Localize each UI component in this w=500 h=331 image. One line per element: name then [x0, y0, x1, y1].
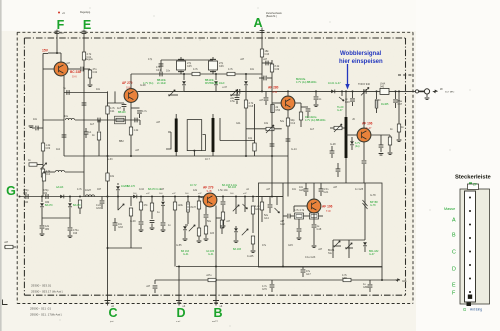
capacitor stub x237 [236, 91, 238, 96]
capacitor between stages [238, 89, 240, 94]
capacitor AF280 base lower [270, 144, 275, 146]
arrow Wobbler injection [347, 64, 349, 88]
trimmer resistor x337 lower [334, 241, 340, 247]
svg-text:BC 238: BC 238 [70, 70, 81, 74]
resistor x262 in box [261, 197, 263, 203]
svg-text:C46: C46 [219, 65, 224, 68]
svg-text:Wobblersignal: Wobblersignal [340, 51, 382, 57]
svg-text:C50: C50 [276, 109, 281, 112]
trimmer stage2 [231, 90, 237, 96]
resistor row y120 [116, 118, 124, 121]
svg-text:G16: G16 [255, 208, 260, 211]
svg-text:u47: u47 [318, 248, 323, 251]
IF coil core bar x346 [345, 91, 347, 117]
svg-text:G86: G86 [363, 286, 368, 289]
resistor on A line [260, 49, 263, 57]
capacitor x299 lower in box [298, 219, 300, 228]
svg-text:u47: u47 [60, 32, 65, 35]
svg-text:C: C [108, 306, 117, 320]
wire joining diodes [42, 217, 70, 219]
capacitor below AF280 [286, 139, 291, 141]
diode G bus series [60, 195, 63, 199]
svg-text:hier einspeisen: hier einspeisen [339, 59, 383, 65]
svg-text:F: F [57, 18, 65, 32]
svg-text:G-30: G-30 [375, 99, 381, 102]
svg-text:G88: G88 [342, 277, 347, 280]
shunt coil DL465 [376, 91, 378, 99]
resistor drop x80 [78, 200, 81, 208]
svg-text:u47: u47 [135, 149, 140, 152]
resistor row74 b [227, 72, 235, 75]
svg-text:AF 279: AF 279 [203, 186, 214, 190]
svg-text:BA 103: BA 103 [228, 186, 237, 189]
svg-text:10n: 10n [166, 70, 171, 73]
svg-text:A: A [253, 16, 262, 30]
wire AF279 base [108, 102, 125, 104]
capacitor x70 lower [68, 228, 73, 230]
wire main ZF line [262, 90, 416, 92]
svg-text:(4u): (4u) [355, 145, 360, 148]
svg-text:DL465: DL465 [381, 103, 389, 106]
diode on main line [331, 90, 334, 94]
terminal D [178, 267, 180, 306]
capacitor below main line right [352, 91, 354, 98]
svg-text:C11: C11 [110, 110, 115, 113]
wire G bus [20, 196, 284, 198]
svg-text:u47: u47 [263, 58, 268, 61]
svg-text:G-14: G-14 [291, 148, 297, 151]
node G bus [79, 196, 81, 198]
svg-text:S-N: S-N [72, 75, 77, 79]
resistor drop x152 [151, 196, 153, 198]
wire bottom bus y280 [155, 279, 399, 281]
resistor x272 y108 [271, 105, 274, 113]
capacitor AF106-2 emitter [312, 225, 317, 227]
resistor AF280 base upper [270, 64, 273, 72]
capacitor tuning block [330, 151, 335, 153]
trimmer left [40, 163, 46, 169]
varicap diode stage1 [183, 73, 185, 75]
capacitor at terminal A [260, 30, 265, 32]
svg-text:4.7k 4.7k: 4.7k 4.7k [294, 209, 305, 212]
svg-text:G18: G18 [317, 228, 322, 231]
svg-text:0dB: 0dB [402, 280, 407, 283]
resistor on E line [83, 48, 85, 52]
svg-text:G17: G17 [306, 273, 311, 276]
svg-text:A: A [452, 218, 456, 224]
svg-text:u47: u47 [226, 220, 231, 223]
wire AF106-2 emitter [313, 213, 315, 224]
diode shunt after main diode [341, 91, 343, 96]
wire AF106-2 bottom to box [313, 240, 315, 245]
scan edge left [0, 0, 2, 331]
trimmer resistor x349 lower [346, 243, 352, 249]
trimmer capacitor stage2 [209, 61, 218, 70]
capacitor AF279-2 emitter [204, 215, 209, 217]
inner stage box [259, 183, 383, 267]
capacitor G bus b [46, 194, 48, 199]
capacitor AF280 emitter [301, 106, 308, 108]
resistor x33 y164 [29, 163, 37, 166]
diode drop x163 [162, 197, 164, 202]
svg-text:S-W: S-W [272, 90, 278, 94]
svg-text:040: 040 [23, 192, 28, 195]
diode x185 lower [183, 226, 187, 229]
resistor after BC238 [88, 70, 91, 78]
capacitor on E line y104 [82, 103, 87, 105]
svg-text:29300 - 053.01: 29300 - 053.01 [31, 284, 52, 288]
svg-text:10p: 10p [248, 137, 253, 140]
arrow end bottom bus [396, 279, 400, 281]
transistor BC238 [54, 62, 68, 76]
svg-text:G-47: G-47 [369, 253, 375, 256]
resistor outside border left [5, 245, 13, 248]
trimmer stage1 [169, 90, 175, 96]
output terminal socket [424, 89, 429, 94]
svg-text:u.47: u.47 [222, 86, 227, 89]
transistor AF280 [281, 96, 295, 110]
wire BC238 emitter out y92 [64, 92, 108, 94]
svg-text:10n: 10n [33, 118, 38, 121]
svg-text:C49: C49 [275, 68, 280, 71]
capacitor AF106-2 base left [283, 215, 287, 217]
svg-text:G14: G14 [264, 217, 269, 220]
capacitor below AF106 [362, 161, 367, 163]
transistor AF106 second [307, 199, 321, 213]
resistor drop x141 [140, 197, 142, 203]
svg-text:G21: G21 [324, 191, 329, 194]
terminal B [215, 280, 217, 306]
svg-text:u47: u47 [146, 285, 151, 288]
IF transformer 2 bracket [202, 135, 206, 151]
capacitor drop x223 [222, 196, 224, 198]
resistor below AF280 [286, 118, 289, 126]
svg-text:10-01 G-47: 10-01 G-47 [328, 82, 341, 85]
capacitor x139 y113 [131, 107, 140, 109]
wire x365 vertical in box [364, 183, 366, 196]
svg-text:G-28: G-28 [330, 143, 336, 146]
svg-text:4.7k: 4.7k [77, 188, 82, 191]
wire row y74 [157, 73, 262, 75]
svg-text:29500 - 021. 17: 29500 - 021. 17 [30, 313, 51, 317]
IF transformer 1 bracket [166, 132, 171, 149]
svg-text:BA170: BA170 [73, 204, 81, 207]
wire x382 box down [381, 267, 383, 281]
svg-text:0.5u: 0.5u [230, 100, 235, 103]
capacitor G bus a [26, 194, 28, 199]
capacitor x270 in box [269, 197, 271, 205]
capacitor AF280 base [267, 77, 272, 79]
varicap diode stage2a [215, 73, 217, 75]
svg-text:u47: u47 [259, 99, 264, 102]
svg-text:4u7: 4u7 [90, 123, 95, 126]
wire bus y155 [64, 155, 288, 157]
connector pins [469, 197, 471, 199]
resistor drop x175 [174, 197, 176, 203]
trimmer x236 [235, 197, 237, 215]
resistor AF106 emitter [388, 137, 391, 145]
wire AF279 collector to main line [138, 90, 263, 92]
trimmer resistor x270 y129 [246, 128, 282, 130]
terminal C [107, 300, 109, 306]
resistor AF280 emitter [299, 112, 302, 120]
svg-text:u47u: u47u [206, 274, 212, 277]
ground at output socket [426, 94, 428, 97]
resistor below row y131 [129, 127, 132, 135]
svg-text:G11: G11 [236, 122, 241, 125]
diode x365 lower [363, 242, 367, 245]
coil 10uH left [43, 119, 64, 121]
svg-text:C43: C43 [265, 53, 270, 56]
svg-text:0-10: 0-10 [139, 188, 145, 191]
svg-text:S-IB: S-IB [207, 189, 212, 193]
svg-text:30,7 MHz: 30,7 MHz [445, 92, 454, 94]
wire BC238 emitter down [63, 76, 65, 120]
svg-text:8mH: 8mH [191, 206, 196, 209]
svg-text:G-41: G-41 [183, 253, 189, 256]
svg-text:4.7V (4u) BB109G: 4.7V (4u) BB109G [305, 119, 325, 122]
svg-text:4.7k: 4.7k [193, 68, 198, 71]
wire AF280 down [287, 110, 289, 196]
trimmer capacitor on main line [364, 89, 366, 94]
wire AF279-2 collector down [215, 206, 217, 301]
wire x333-x365 connect [332, 240, 334, 252]
svg-text:10.7V: 10.7V [190, 184, 197, 187]
output arrow ZF out [434, 90, 438, 92]
svg-text:032: 032 [45, 201, 50, 204]
trimmer resistor tuning [334, 126, 342, 129]
svg-text:1.2k: 1.2k [134, 129, 139, 132]
capacitor x42 lower [40, 226, 45, 228]
svg-text:047: 047 [97, 188, 102, 191]
resistor row74 a [192, 72, 200, 75]
svg-text:Ant Eing: Ant Eing [470, 308, 482, 312]
diode series on bus x135 [133, 195, 136, 199]
varicap diode stage2 [245, 73, 247, 75]
svg-text:C45: C45 [187, 65, 192, 68]
wire AF280 base chain [272, 102, 281, 104]
svg-text:940: 940 [380, 85, 385, 88]
svg-text:G-47: G-47 [337, 109, 343, 112]
svg-text:1.5n 10n: 1.5n 10n [218, 189, 228, 192]
transistor AF279 second [203, 193, 217, 207]
capacitor row74 a [160, 72, 162, 77]
capacitor right end [395, 91, 397, 99]
svg-text:10n: 10n [250, 68, 255, 71]
svg-text:D: D [452, 267, 456, 273]
resistor drop x399 [398, 90, 400, 92]
svg-text:10n: 10n [292, 188, 297, 191]
capacitor on E line y133 [84, 132, 89, 134]
svg-text:29300 - 053.17: 29300 - 053.17 [31, 290, 52, 294]
photo diode arrows x365 [363, 200, 368, 209]
svg-text:4u7: 4u7 [117, 107, 122, 110]
svg-text:u47: u47 [66, 62, 71, 65]
capacitor beside coil [336, 169, 341, 171]
resistor x254 y147 [253, 143, 256, 151]
svg-text:AF 280: AF 280 [268, 86, 279, 90]
wire AF279-2 emitter down [205, 206, 207, 214]
svg-text:S-47: S-47 [366, 126, 372, 130]
svg-text:1n G25: 1n G25 [355, 188, 364, 191]
svg-text:G15: G15 [288, 244, 293, 247]
svg-text:(Mo-Ausf.): (Mo-Ausf.) [52, 291, 63, 294]
svg-text:10n: 10n [96, 88, 101, 91]
wire A to base chain y63 [262, 62, 272, 64]
capacitor bottom x272 [271, 280, 273, 284]
capacitor bottom x370 [369, 280, 371, 284]
svg-text:BA170: BA170 [45, 204, 53, 207]
svg-text:1k5: 1k5 [210, 232, 215, 235]
scan specks [154, 16, 155, 17]
svg-text:10u: 10u [64, 115, 69, 118]
resistor bottom x347 [343, 278, 351, 281]
svg-text:BA 170: BA 170 [127, 185, 136, 188]
connector top tab ZF [468, 184, 479, 190]
wire AF106 emitter right [371, 134, 390, 136]
wire x283 vertical [282, 183, 284, 267]
diode tuning [350, 141, 354, 144]
svg-text:(Basis M.): (Basis M.) [266, 15, 277, 18]
varactor diode drop x70 [69, 196, 71, 198]
wire BC238 base [43, 68, 54, 70]
svg-text:G-41: G-41 [208, 253, 214, 256]
svg-text:17p: 17p [148, 58, 153, 61]
wire top row y60 [161, 59, 213, 61]
svg-text:G: G [6, 184, 16, 198]
junction dots on bus [140, 196, 142, 198]
svg-text:0.1u G23: 0.1u G23 [305, 256, 316, 259]
capacitor at terminal E [82, 31, 87, 33]
diode x277 in box [276, 197, 278, 206]
wire bottom bus y266 [176, 266, 382, 268]
capacitor AF106 emitter [379, 145, 384, 147]
svg-text:50u: 50u [207, 220, 212, 223]
resistor x107 y177 [106, 173, 109, 181]
svg-text:10.7: 10.7 [205, 158, 210, 161]
svg-text:G76: G76 [262, 288, 267, 291]
connector bottom pin square [468, 295, 472, 299]
capacitor x303 y272 [302, 267, 304, 270]
svg-text:G33: G33 [118, 226, 123, 229]
capacitor top of AF106-2 a [304, 189, 309, 191]
svg-text:ws/2T: ws/2T [212, 321, 218, 323]
svg-text:C10: C10 [46, 173, 51, 176]
svg-text:Steckerleiste: Steckerleiste [455, 175, 492, 181]
wire AF106 down [363, 142, 365, 160]
capacitor x266 y99 [265, 91, 267, 97]
diode above bus x118 [116, 186, 120, 189]
transistor AF106 first [357, 128, 371, 142]
wire AF280 emitter [295, 102, 301, 104]
trimmer x245 lower [242, 229, 248, 235]
svg-text:040: 040 [24, 201, 29, 204]
resistor top left block [42, 173, 45, 181]
IF transformer 2 core bar [212, 118, 215, 152]
wire AF279-2 base [198, 197, 204, 199]
resistor AF279-2 collector [220, 220, 223, 228]
svg-text:just: just [109, 320, 114, 323]
svg-text:B: B [213, 306, 222, 320]
coil G bus series [86, 195, 95, 197]
resistor AF106-2 base b [310, 213, 319, 219]
coil drop x188 [187, 197, 189, 203]
wire AF106-2 base [294, 205, 307, 207]
svg-text:4u7: 4u7 [310, 128, 315, 131]
resistor x246 y104 [245, 92, 247, 157]
svg-text:u.a.f: u.a.f [176, 321, 181, 323]
svg-text:G-09: G-09 [130, 220, 136, 223]
resistor AF106-2 base [295, 213, 304, 219]
wire y248 left [108, 247, 143, 249]
svg-text:G33: G33 [96, 207, 101, 210]
svg-text:u47: u47 [4, 241, 9, 244]
capacitor at terminal F [55, 31, 60, 33]
svg-text:Regelspg.: Regelspg. [80, 11, 91, 14]
svg-text:120k: 120k [178, 204, 184, 207]
dashed partition top right [398, 74, 413, 76]
resistor x253 [252, 197, 254, 203]
svg-text:47u: 47u [262, 244, 267, 247]
svg-text:4.7k: 4.7k [228, 68, 233, 71]
connector pin strip [465, 191, 476, 302]
connector body [460, 189, 490, 304]
svg-text:G-55: G-55 [176, 244, 182, 247]
svg-text:MS7B6k ZF 10uF: MS7B6k ZF 10uF [205, 82, 225, 85]
capacitor row2 y120 [135, 118, 137, 123]
diode x236 lower [234, 228, 238, 231]
resistor R 15V rail [41, 143, 44, 151]
trimmer capacitor stage1 [177, 61, 186, 70]
capacitor drop x316 main line [315, 90, 317, 92]
svg-text:TOKO 940: TOKO 940 [358, 83, 371, 86]
svg-text:29500 - 021 .01: 29500 - 021 .01 [30, 307, 51, 311]
svg-text:G-78: G-78 [370, 194, 376, 197]
wire mid column down [107, 114, 109, 300]
resistor x99 emitter branch [98, 120, 100, 131]
capacitor x124 y105 [123, 102, 125, 105]
IF transformer 1 core bar [175, 119, 178, 153]
svg-text:BB109: BB109 [118, 111, 126, 114]
svg-text:C12: C12 [291, 122, 296, 125]
svg-text:C: C [452, 250, 456, 256]
wire AF106 base [346, 134, 357, 136]
svg-text:Regels: Regels [85, 58, 94, 61]
resistor on main line [380, 88, 389, 94]
capacitor row y120 [98, 118, 100, 123]
svg-text:1k2: 1k2 [56, 148, 61, 151]
svg-text:ZF: ZF [473, 183, 477, 187]
svg-text:C47: C47 [398, 103, 403, 106]
svg-text:016: 016 [73, 232, 78, 235]
trimmer below bus x121 [118, 204, 124, 210]
svg-text:T-W: T-W [326, 209, 331, 213]
svg-text:u47: u47 [156, 121, 161, 124]
svg-text:080: 080 [45, 228, 50, 231]
svg-text:10uH: 10uH [85, 189, 91, 192]
svg-text:4.7V (4u) BB109G: 4.7V (4u) BB109G [296, 81, 316, 84]
resistor bottom x212 [208, 278, 216, 281]
svg-text:52u: 52u [280, 120, 285, 123]
svg-text:u47: u47 [266, 188, 271, 191]
svg-text:G22: G22 [280, 223, 285, 226]
wire bus into box [256, 196, 283, 198]
svg-text:15V: 15V [42, 49, 49, 53]
wire 15V rail down [42, 54, 44, 197]
resistor drop x131 [130, 197, 132, 207]
svg-text:AA113: AA113 [56, 186, 64, 189]
svg-text:B: B [452, 233, 456, 239]
